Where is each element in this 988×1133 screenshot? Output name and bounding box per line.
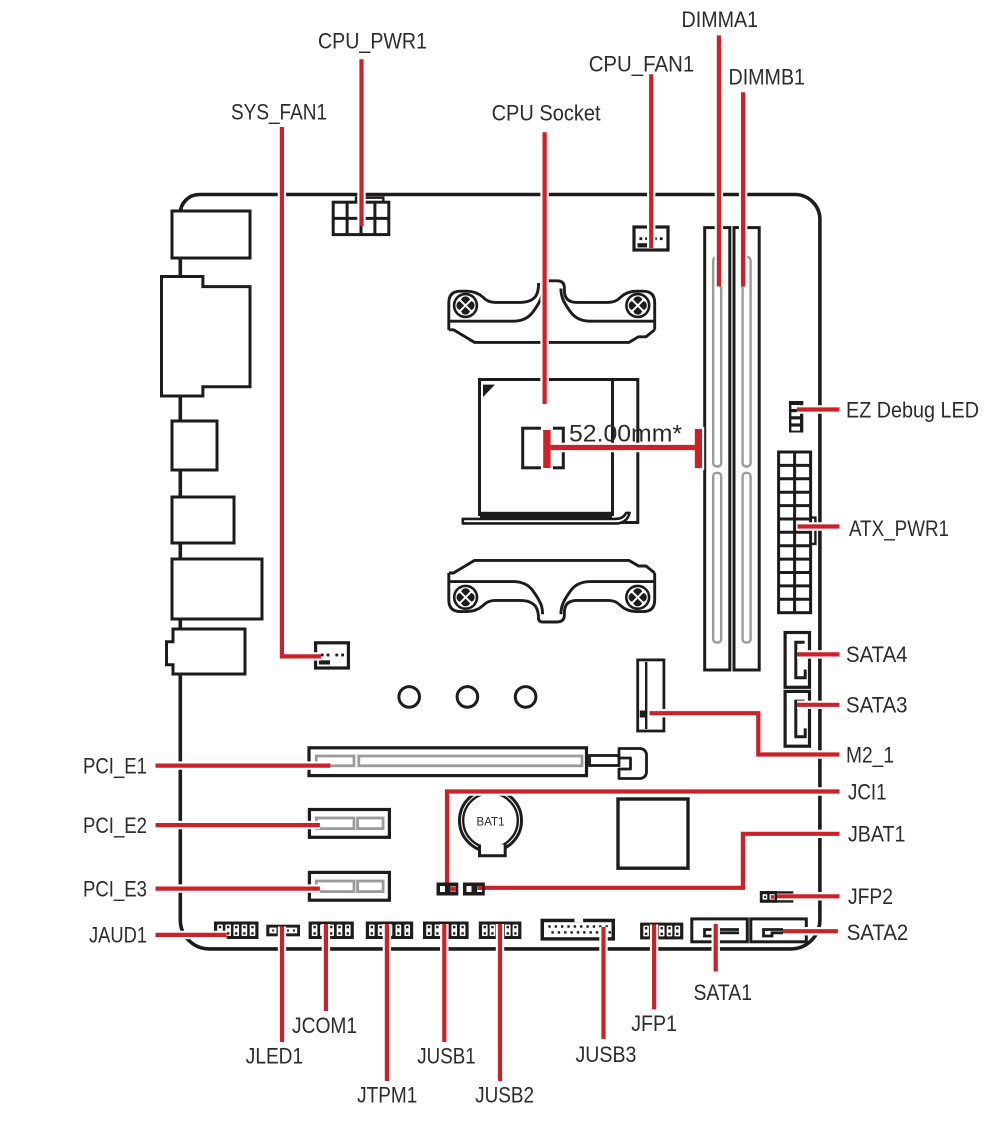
wire EZ Debug LED (797, 405, 840, 413)
label JFP2 (848, 884, 893, 909)
jumper JBAT1 (463, 883, 485, 896)
header JUSB2 (479, 922, 522, 940)
svg-text:JLED1: JLED1 (246, 1044, 303, 1069)
label DIMMB1 (729, 65, 806, 90)
header JAUD1 (214, 922, 259, 940)
I/O port USB stack (172, 559, 262, 619)
svg-text:JUSB2: JUSB2 (475, 1083, 534, 1108)
svg-text:SATA2: SATA2 (847, 920, 909, 945)
header JUSB3 (541, 917, 616, 941)
wire PCI_E1 (156, 761, 331, 769)
svg-text:CPU Socket: CPU Socket (492, 101, 601, 126)
DIMM slot DIMMB1 (734, 228, 759, 670)
wire CPU_FAN1 (647, 74, 655, 248)
battery BAT1 (460, 790, 522, 856)
DIMM slot DIMMA1 (705, 228, 730, 670)
svg-text:JUSB1: JUSB1 (417, 1044, 475, 1069)
label CPU Socket (492, 101, 601, 126)
PCI_E1 latch (590, 749, 647, 779)
wire M2_1 (650, 713, 840, 754)
svg-text:M2_1: M2_1 (846, 742, 894, 767)
PCI-E slot PCI_E2 (309, 810, 389, 838)
label EZ Debug LED (846, 398, 979, 423)
connector ATX_PWR1 (779, 452, 816, 613)
svg-text:JUSB3: JUSB3 (576, 1042, 637, 1067)
label SYS_FAN1 (231, 99, 327, 124)
label SATA1 (694, 980, 753, 1005)
wire JUSB1 (440, 924, 448, 1042)
label JCI1 (848, 780, 887, 805)
PCI-E slot PCI_E1 (309, 748, 587, 776)
label CPU_PWR1 (318, 29, 427, 54)
I/O port LAN (172, 497, 234, 543)
svg-text:52.00mm*: 52.00mm* (569, 420, 682, 447)
svg-text:DIMMB1: DIMMB1 (729, 65, 806, 90)
label SATA4 (846, 642, 908, 667)
connector SYS_FAN1 (316, 643, 349, 668)
svg-text:JCOM1: JCOM1 (292, 1013, 357, 1038)
wire SATA3 (797, 701, 840, 709)
jumper JCI1 (437, 883, 459, 896)
wire CPU Socket (540, 132, 548, 404)
svg-text:JTPM1: JTPM1 (357, 1083, 417, 1108)
I/O port PS2 (172, 211, 250, 258)
label ATX_PWR1 (849, 516, 949, 541)
label PCI_E2 (83, 813, 147, 838)
label JLED1 (246, 1044, 303, 1069)
connector CPU_PWR1 (333, 198, 389, 235)
wire SATA2 (783, 927, 838, 935)
connector SATA3 (785, 691, 809, 746)
wire SATA4 (797, 650, 840, 658)
label JUSB2 (475, 1083, 534, 1108)
EZ Debug LED block (789, 401, 803, 433)
svg-text:SATA1: SATA1 (694, 980, 753, 1005)
mounting holes (399, 687, 536, 708)
label JAUD1 (89, 923, 147, 948)
svg-text:ATX_PWR1: ATX_PWR1 (849, 516, 949, 541)
chipset block (618, 799, 688, 868)
label CPU_FAN1 (589, 51, 695, 76)
label JUSB3 (576, 1042, 637, 1067)
label JUSB1 (417, 1044, 475, 1069)
header JLED1 (266, 925, 300, 937)
label PCI_E1 (83, 753, 147, 778)
connector SATA2 (751, 919, 807, 942)
svg-text:BAT1: BAT1 (477, 815, 505, 829)
label SATA3 (846, 693, 908, 718)
I/O port audio jacks (167, 629, 246, 674)
label JFP1 (631, 1011, 677, 1036)
svg-text:PCI_E1: PCI_E1 (83, 753, 147, 778)
label JCOM1 (292, 1013, 357, 1038)
header JFP1 (640, 923, 683, 940)
wire JFP2 (766, 892, 840, 900)
connector SATA4 (785, 633, 809, 688)
CPU center square (523, 428, 564, 468)
svg-text:CPU_PWR1: CPU_PWR1 (318, 29, 427, 54)
svg-text:PCI_E3: PCI_E3 (83, 877, 147, 902)
wire ATX_PWR1 (798, 522, 840, 530)
wire JLED1 (278, 927, 286, 1043)
wire PCI_E3 (156, 884, 320, 892)
CPU socket lever bar (480, 512, 612, 518)
wire DIMMB1 (739, 92, 747, 286)
connector SATA1 (692, 919, 748, 942)
svg-text:SYS_FAN1: SYS_FAN1 (231, 99, 327, 124)
svg-text:CPU_FAN1: CPU_FAN1 (589, 51, 695, 76)
jumper JFP2 (760, 891, 794, 903)
label JTPM1 (357, 1083, 417, 1108)
header JCOM1 (309, 922, 354, 940)
header JUSB1 (423, 922, 469, 940)
svg-text:JFP1: JFP1 (631, 1011, 677, 1036)
PCI-E slot PCI_E3 (309, 872, 389, 900)
label SATA2 (847, 920, 909, 945)
svg-text:JBAT1: JBAT1 (848, 822, 905, 847)
wire SATA1 (712, 924, 720, 972)
heatsink bracket top (449, 281, 655, 343)
svg-text:JCI1: JCI1 (848, 780, 887, 805)
header JTPM1 (366, 922, 413, 940)
wire SYS_FAN1 (282, 127, 321, 656)
wire JUSB3 (599, 927, 607, 1039)
svg-text:SATA3: SATA3 (846, 693, 908, 718)
wire JCOM1 (322, 924, 330, 1011)
svg-text:PCI_E2: PCI_E2 (83, 813, 147, 838)
I/O port DVI (162, 277, 251, 397)
wire DIMMA1 (715, 35, 723, 286)
dimension 52.00mm (541, 426, 704, 470)
svg-text:EZ Debug LED: EZ Debug LED (846, 398, 979, 423)
connector M2_1 (638, 660, 664, 731)
svg-text:SATA4: SATA4 (846, 642, 908, 667)
svg-text:JAUD1: JAUD1 (89, 923, 147, 948)
wire JFP1 (650, 925, 658, 1010)
svg-text:JFP2: JFP2 (848, 884, 893, 909)
label JBAT1 (848, 822, 905, 847)
svg-text:DIMMA1: DIMMA1 (682, 7, 759, 32)
wire JUSB2 (496, 924, 504, 1081)
wire JTPM1 (383, 924, 391, 1081)
label M2_1 (846, 742, 894, 767)
heatsink bracket bottom (449, 560, 655, 622)
wire JBAT1 (478, 834, 840, 888)
CPU socket (480, 380, 638, 523)
CPU socket lever (463, 513, 630, 524)
label DIMMA1 (682, 7, 759, 32)
motherboard outline (180, 195, 820, 949)
connector CPU_FAN1 (634, 227, 668, 250)
I/O port USB block (172, 421, 217, 470)
label PCI_E3 (83, 877, 147, 902)
label 52.00mm* (569, 420, 682, 447)
wire CPU_PWR1 (357, 59, 365, 226)
wire PCI_E2 (156, 821, 320, 829)
wire JCI1 (447, 792, 840, 885)
wire JAUD1 (156, 931, 227, 939)
